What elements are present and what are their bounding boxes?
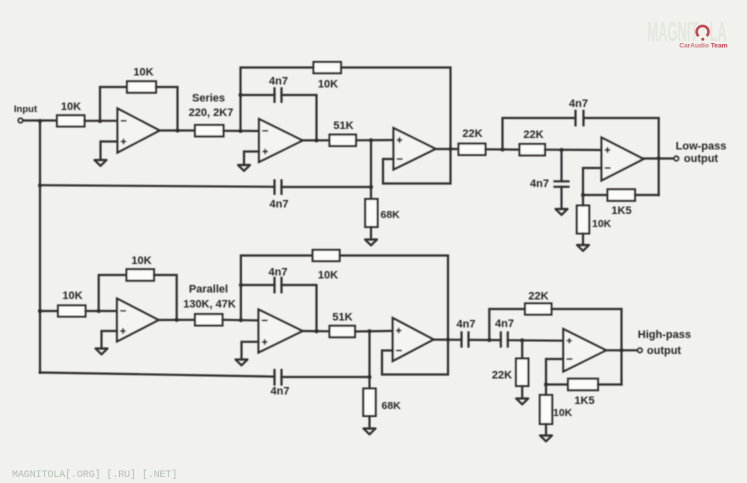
resistor R5 51K (330, 135, 357, 146)
wire U5 output (159, 319, 196, 321)
wire R5 to U3 (356, 139, 394, 142)
resistor R14 10K loop feedback HP (313, 250, 340, 261)
node junction bus-HP input (38, 309, 42, 313)
ground R16 (364, 429, 376, 435)
wire C7 to C8 (469, 339, 501, 341)
wire U5 feedback left vertical (99, 275, 127, 311)
node junction HP feed (368, 375, 372, 379)
wire R12 to U5 output (154, 275, 177, 320)
resistor R7 22K (459, 144, 486, 155)
wire R9 top lead (582, 195, 584, 206)
ground R18 (516, 399, 528, 405)
svg-text:4n7: 4n7 (495, 318, 514, 330)
capacitor C7 4n7 series (462, 333, 469, 347)
svg-text:MAGNITOLA[.ORG] [.RU] [.NET]: MAGNITOLA[.ORG] [.RU] [.NET] (12, 469, 177, 481)
svg-text:10K: 10K (318, 79, 338, 91)
wire R17 branch up (489, 309, 525, 340)
ground U2 (238, 165, 250, 171)
wire R7 to R8 (486, 148, 520, 151)
resistor R20 1K5 feedback U8 (568, 379, 598, 391)
wire cap branch left HP (241, 284, 275, 286)
wire U4 output (644, 157, 675, 159)
resistor R8 22K (520, 144, 546, 155)
ground U5 (96, 349, 108, 355)
svg-text:10K: 10K (62, 290, 82, 302)
node junction R18 branch (520, 338, 524, 342)
node junction R9 R10 (581, 193, 585, 197)
svg-text:4n7: 4n7 (269, 267, 288, 279)
wire feedback left vertical (100, 87, 127, 121)
svg-text:10K: 10K (318, 270, 338, 282)
svg-text:CarAudio Team: CarAudio Team (679, 43, 727, 50)
low-pass output terminal (674, 156, 678, 160)
capacitor C2 4n7 feed (275, 180, 282, 194)
node junction bus-LP feed (38, 183, 42, 187)
wire C4 branch down (560, 150, 562, 181)
svg-text:4n7: 4n7 (457, 319, 476, 331)
svg-text:10K: 10K (553, 407, 573, 419)
wire R11 to U5 (86, 310, 118, 312)
resistor R13 parallel 130K,47K (195, 314, 223, 325)
op-amp U5 (117, 299, 159, 342)
node U7 input junction (368, 329, 372, 333)
node U7 output junction (446, 338, 450, 342)
resistor R6 68K (365, 199, 377, 227)
op-amp U7 (393, 318, 434, 361)
capacitor C5 4n7 U6 feedback (275, 278, 282, 292)
resistor R9 10K shunt (577, 206, 589, 234)
wire U7 output (434, 339, 462, 341)
resistor R3 series 220,2K7 (195, 125, 224, 136)
capacitor C3 4n7 U4 feedback (576, 111, 584, 126)
svg-text:10K: 10K (133, 67, 153, 79)
wire C4 to ground (560, 187, 562, 209)
wire input bus vertical (39, 121, 41, 373)
svg-text:10K: 10K (61, 101, 81, 113)
node U5 inverting junction (97, 309, 101, 313)
resistor R16 68K HP (363, 389, 375, 417)
op-amp U3 (394, 128, 436, 170)
resistor R19 10K shunt HP (540, 395, 552, 424)
op-amp U2 (259, 119, 303, 162)
wire R20 to output vertical (598, 383, 622, 385)
node U3 output junction (449, 147, 453, 151)
wire cap branch left (241, 94, 275, 96)
op-amp U6 (259, 310, 303, 353)
wire R4 to U3 output vertical (341, 68, 451, 150)
op-amp U4 (602, 138, 644, 181)
wire R18 to ground (521, 386, 523, 399)
wire cap branch right HP (282, 285, 317, 331)
wire R13 to U6 (223, 319, 259, 322)
logo ring O (697, 26, 709, 36)
node U5 output junction (175, 318, 179, 322)
wire U5 noninverting to ground (102, 331, 118, 349)
capacitor C4 4n7 shunt (555, 181, 569, 187)
resistor R2 10K feedback U1 (127, 81, 156, 92)
op-amp U1 (118, 109, 160, 153)
wire 68K to ground HP (368, 416, 370, 429)
node junction C3 branch (501, 148, 505, 152)
svg-text:Input: Input (14, 104, 38, 115)
node junction cap branch HP (239, 283, 243, 287)
node junction cap branch (239, 93, 243, 97)
node U6 input junction (239, 318, 243, 322)
resistor R1 10K input (57, 115, 85, 126)
svg-text:4n7: 4n7 (569, 98, 588, 110)
wire junction down to 68K HP (368, 331, 370, 388)
resistor R12 10K feedback U5 (127, 269, 155, 281)
svg-text:1K5: 1K5 (611, 205, 631, 217)
wire input to R1 (23, 119, 57, 121)
node U4 output junction (657, 156, 661, 160)
input terminal (18, 118, 22, 122)
node U1 output junction (176, 129, 180, 133)
wire R14 to U7 output vertical (340, 256, 448, 340)
svg-text:output: output (647, 345, 682, 357)
wire U2 output (303, 139, 330, 141)
wire U1 noninverting to ground (101, 142, 118, 161)
ground C4 (556, 209, 568, 215)
resistor R17 22K feedback U8 (525, 303, 552, 314)
op-amp U8 (563, 329, 606, 372)
ground U1 (95, 160, 107, 166)
svg-text:130K, 47K: 130K, 47K (183, 299, 236, 311)
node junction R17 branch (487, 338, 491, 342)
svg-text:4n7: 4n7 (530, 178, 549, 190)
svg-text:10K: 10K (131, 255, 151, 267)
resistor R11 10K input HP (58, 305, 86, 316)
wire U4 inverting branch (583, 168, 608, 195)
svg-text:10K: 10K (592, 218, 612, 230)
node U6 output junction (315, 329, 319, 333)
wire R3 to U2 (224, 130, 260, 132)
wire U6 noninverting to ground (242, 342, 259, 360)
capacitor C8 4n7 series (501, 333, 508, 347)
wire U7 feedback loop (382, 340, 448, 375)
node junction LP feed (369, 185, 373, 189)
svg-text:22K: 22K (462, 128, 482, 140)
wire U6 feedback left vertical (241, 256, 313, 321)
wire R9 to ground (582, 234, 584, 246)
wire 68K to ground (370, 227, 372, 240)
wire R8 to U4 (545, 149, 602, 152)
svg-text:Parallel: Parallel (189, 284, 228, 296)
resistor R15 51K HP (330, 326, 356, 337)
capacitor C6 4n7 feed HP (275, 370, 282, 385)
node U8 output junction (620, 348, 624, 352)
svg-text:High-pass: High-pass (638, 329, 691, 341)
svg-text:51K: 51K (333, 120, 353, 132)
node junction C4 branch (560, 148, 564, 152)
svg-text:51K: 51K (332, 312, 352, 324)
svg-text:Low-pass: Low-pass (676, 141, 727, 153)
wire U6 output (303, 330, 330, 332)
svg-text:22K: 22K (492, 370, 512, 382)
svg-text:68K: 68K (381, 209, 401, 221)
wire junction down to 68K (370, 140, 372, 199)
wire R17 to output vertical (552, 309, 622, 385)
node U2 output junction (315, 138, 319, 142)
wire C8 to U8 (508, 339, 564, 342)
wire LP feed line right (282, 186, 372, 188)
node junction R19 R20 (544, 383, 548, 387)
wire U8 inverting branch (546, 359, 568, 385)
capacitor C1 4n7 U2 feedback (275, 88, 282, 102)
wire R10 to output node (635, 194, 659, 196)
high-pass output terminal (638, 348, 642, 352)
wire R19 to ground (545, 424, 547, 436)
wire R18 branch down (521, 340, 523, 358)
svg-text:Series: Series (192, 93, 225, 105)
wire U3 feedback loop (383, 149, 451, 184)
svg-text:4n7: 4n7 (270, 199, 289, 211)
wire LP feed line left (40, 185, 275, 187)
wire cap branch right (282, 95, 317, 140)
wire HP feed line left (40, 373, 275, 377)
node input junction (38, 119, 42, 123)
ground U6 (236, 360, 248, 366)
wire U8 output (606, 349, 638, 351)
wire R19 top lead (545, 385, 547, 396)
node U1 inverting junction (98, 119, 102, 123)
wire R1 to U1 (85, 120, 118, 122)
wire bus to R11 (40, 310, 58, 312)
svg-text:1K5: 1K5 (574, 395, 594, 407)
svg-text:output: output (684, 153, 719, 165)
ground R19 (540, 436, 552, 442)
wire U1 output (160, 129, 196, 131)
wire R15 to U7 (355, 330, 393, 333)
ground R6 (365, 240, 377, 246)
ground R9 (577, 245, 589, 251)
watermark logo MAGNITOLA (648, 15, 728, 49)
wire U2 feedback left vertical (241, 68, 314, 132)
wire R2 to U1 output (156, 87, 178, 131)
svg-text:22K: 22K (528, 291, 548, 303)
wire U3 output (436, 148, 459, 150)
resistor R10 1K5 feedback U4 (608, 189, 636, 201)
resistor R18 22K shunt (516, 359, 528, 387)
node U3 input junction (369, 138, 373, 142)
svg-text:4n7: 4n7 (269, 76, 288, 88)
wire HP feed line right (282, 376, 370, 378)
svg-text:4n7: 4n7 (271, 386, 290, 398)
svg-text:220, 2K7: 220, 2K7 (189, 107, 234, 119)
svg-text:22K: 22K (523, 129, 543, 141)
resistor R4 10K loop feedback (314, 62, 342, 73)
wire U2 noninverting to ground (244, 152, 259, 166)
node U2 input junction (239, 129, 243, 133)
wire C3 branch up (503, 118, 576, 150)
wire C3 branch right (584, 118, 659, 195)
svg-text:68K: 68K (382, 400, 402, 412)
